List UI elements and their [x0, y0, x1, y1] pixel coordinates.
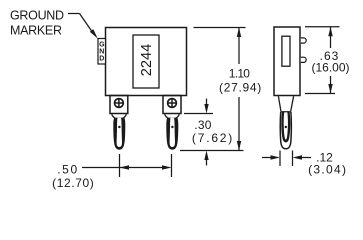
svg-text:G: G [99, 42, 105, 49]
svg-text:.50: .50 [57, 162, 78, 176]
svg-text:(12.70): (12.70) [52, 176, 94, 190]
svg-text:(3.04): (3.04) [308, 163, 347, 177]
svg-text:N: N [99, 49, 104, 56]
svg-text:(27.94): (27.94) [219, 81, 262, 95]
svg-text:D: D [99, 56, 104, 63]
svg-text:1.10: 1.10 [229, 67, 251, 81]
svg-text:(7.62): (7.62) [192, 131, 234, 145]
svg-text:.30: .30 [194, 118, 212, 132]
svg-text:MARKER: MARKER [10, 23, 62, 37]
svg-text:(16.00): (16.00) [311, 60, 349, 74]
svg-text:GROUND: GROUND [10, 8, 64, 22]
svg-text:2244: 2244 [139, 44, 155, 76]
